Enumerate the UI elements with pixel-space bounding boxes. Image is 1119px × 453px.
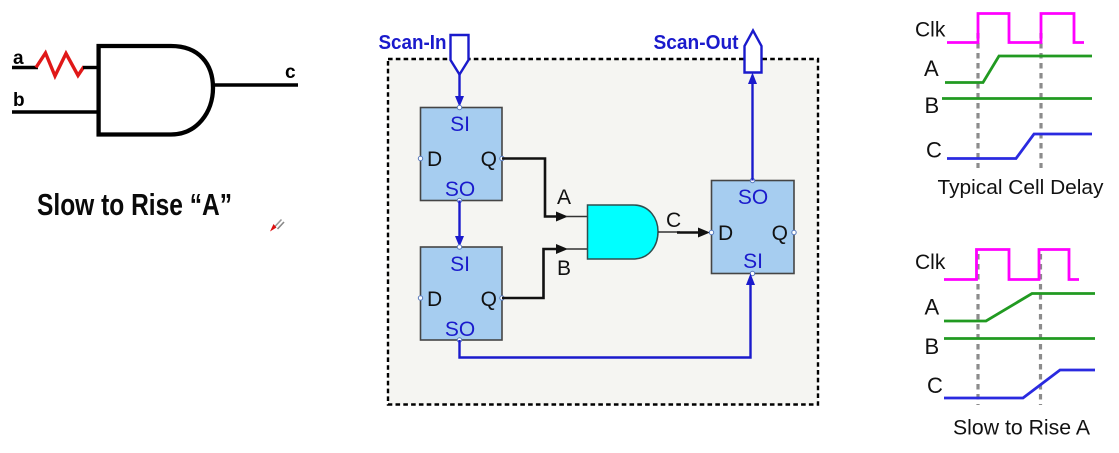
AND gate G1 (cyan) (588, 205, 659, 259)
svg-text:c: c (285, 62, 296, 83)
svg-text:a: a (13, 48, 24, 69)
resistor (red zigzag) on input a (36, 53, 84, 76)
svg-text:A: A (557, 186, 571, 209)
svg-text:A: A (925, 295, 940, 320)
svg-text:Scan-In: Scan-In (379, 32, 447, 54)
flip-flop U1 (top-left scan cell) (421, 108, 503, 201)
AND gate (left schematic) (99, 46, 213, 135)
svg-text:Q: Q (481, 288, 497, 311)
svg-text:B: B (925, 93, 940, 118)
svg-text:D: D (427, 288, 442, 311)
svg-text:SI: SI (450, 113, 470, 136)
svg-text:B: B (557, 257, 571, 280)
wire: U1 Q to AND input A (with arrowhead) (502, 159, 588, 222)
Scan-Out port flag (745, 31, 762, 73)
svg-text:Typical Cell Delay: Typical Cell Delay (938, 177, 1104, 199)
svg-text:C: C (666, 209, 681, 232)
wire: input a (12, 66, 38, 69)
svg-text:Q: Q (772, 222, 788, 245)
wire: resistor to gate (83, 66, 99, 69)
wire: U3 SO to Scan-Out (with arrowhead) (748, 73, 757, 181)
svg-text:Clk: Clk (915, 19, 946, 42)
svg-text:SI: SI (450, 253, 470, 276)
wire: U2 SO to U3 SI (with arrowhead) (460, 274, 756, 358)
t2 C waveform (944, 370, 1095, 398)
pencil cursor icon (270, 220, 284, 232)
svg-text:C: C (927, 373, 943, 398)
t1 dashed marker line 2 (1039, 33, 1042, 168)
t2 dashed marker line 2 (1039, 254, 1042, 405)
svg-text:Slow to Rise “A”: Slow to Rise “A” (37, 187, 232, 222)
wire: output c (213, 83, 298, 86)
svg-text:SI: SI (743, 250, 763, 273)
t2 dashed marker line 1 (976, 254, 979, 405)
svg-text:Slow to Rise A: Slow to Rise A (953, 417, 1090, 440)
wire: AND output C to U3 D (with arrowhead) (658, 228, 710, 238)
t1 B waveform (942, 97, 1092, 100)
wire: input b (12, 110, 99, 113)
scan cell boundary (dashed box) (388, 59, 818, 405)
svg-text:Scan-Out: Scan-Out (654, 32, 739, 54)
svg-text:D: D (718, 222, 733, 245)
svg-text:B: B (925, 334, 940, 359)
svg-text:C: C (926, 138, 942, 163)
svg-text:b: b (13, 90, 25, 111)
svg-text:A: A (924, 56, 939, 81)
U3 pin dots (709, 178, 796, 275)
wire: U2 Q to AND input B (with arrowhead) (502, 244, 588, 298)
U1 pin dots (418, 105, 504, 202)
Scan-In port flag (451, 35, 469, 75)
svg-text:Q: Q (481, 148, 497, 171)
svg-text:SO: SO (445, 178, 475, 201)
flip-flop U2 (bottom-left scan cell) (421, 247, 503, 340)
t1 Clk waveform (947, 14, 1084, 43)
U2 pin dots (418, 245, 504, 342)
t2 B waveform (944, 337, 1095, 340)
svg-text:SO: SO (738, 186, 768, 209)
wire: Scan-In to FF1 (with arrowhead) (455, 75, 464, 108)
wire: U1 SO to U2 SI (with arrowhead) (455, 201, 464, 248)
svg-text:Clk: Clk (915, 251, 946, 274)
t2 A waveform (944, 294, 1095, 322)
t2 Clk waveform (944, 250, 1079, 280)
flip-flop U3 (output scan cell) (712, 181, 795, 274)
svg-text:D: D (427, 148, 442, 171)
t1 C waveform (947, 134, 1092, 159)
t1 dashed marker line 1 (976, 33, 979, 168)
t1 A waveform (945, 56, 1092, 83)
